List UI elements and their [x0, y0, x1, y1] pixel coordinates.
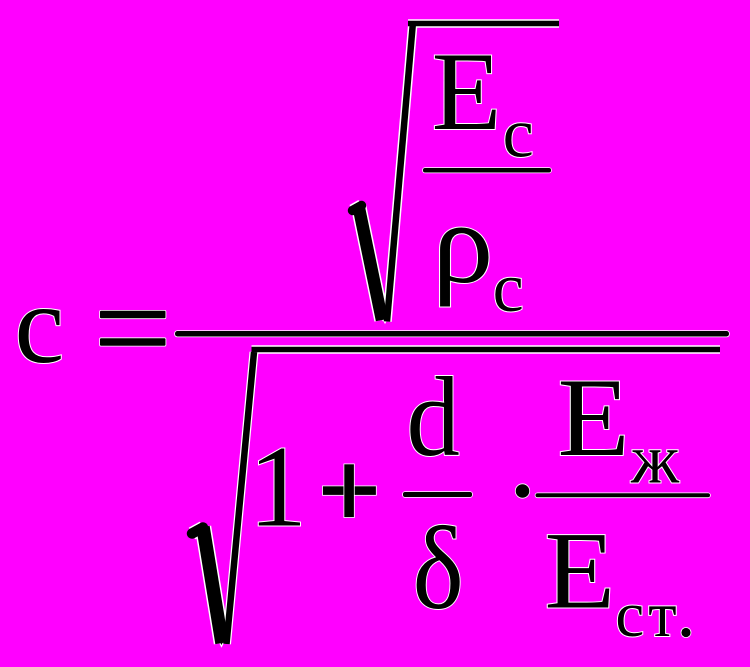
svg-text:c: c: [493, 250, 524, 327]
fraction bar E_zh over E_st: [536, 493, 711, 497]
top radical (numerator sqrt): [353, 22, 560, 322]
svg-text:ж: ж: [630, 422, 680, 499]
equals sign: [100, 311, 166, 319]
svg-text:E: E: [545, 511, 616, 632]
top radical (numerator sqrt) white halo: [353, 22, 560, 322]
bottom radical (denominator sqrt) white halo: [192, 350, 720, 646]
multiplication dot: [516, 484, 530, 498]
main fraction bar: [175, 331, 729, 337]
period after st: [681, 628, 690, 637]
svg-text:ρ: ρ: [432, 180, 493, 307]
svg-text:E: E: [432, 30, 502, 154]
inner fraction bar (E_c over rho_c): [423, 168, 551, 173]
svg-text:E: E: [558, 355, 630, 480]
svg-text:c: c: [15, 263, 65, 387]
svg-text:ст: ст: [615, 579, 680, 651]
fraction bar d/delta: [403, 492, 472, 497]
svg-text:d: d: [407, 354, 460, 479]
svg-text:1: 1: [249, 423, 308, 552]
svg-text:c: c: [503, 95, 534, 172]
bottom radical (denominator sqrt): [192, 350, 720, 646]
plus sign: [323, 486, 376, 495]
svg-text:δ: δ: [413, 502, 464, 635]
